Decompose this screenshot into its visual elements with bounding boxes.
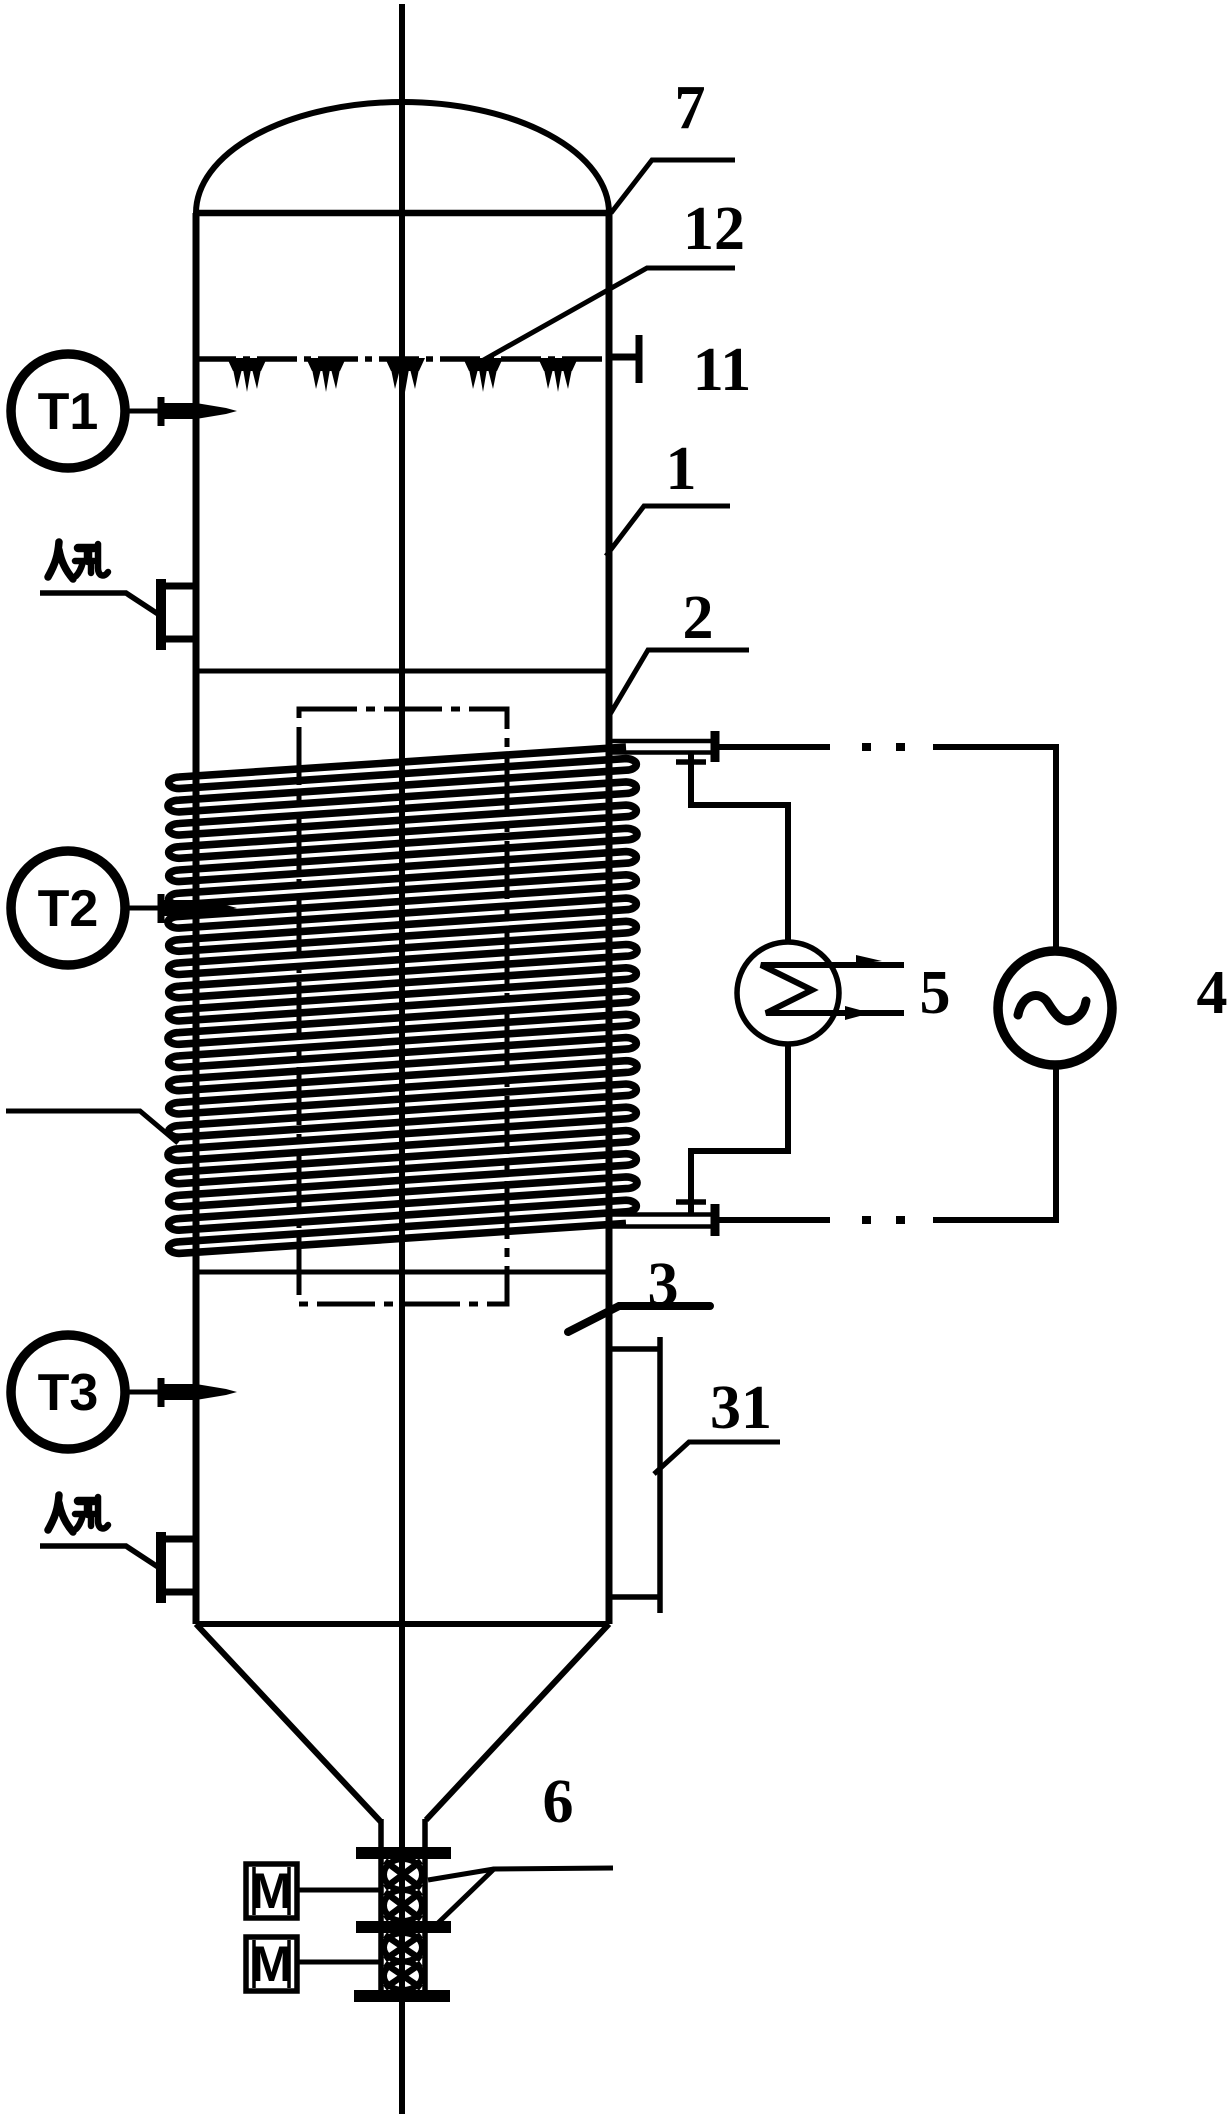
lower branch pipe from heat exchanger: [676, 1045, 788, 1213]
external tube 31 on right wall: [609, 1337, 661, 1613]
label 2 leader: [609, 650, 749, 716]
svg-text:5: 5: [920, 959, 951, 1027]
centerline of vessel: [399, 4, 405, 2114]
svg-text:T1: T1: [38, 383, 99, 441]
svg-text:2: 2: [683, 584, 714, 652]
manhole (renkong) lower: [40, 1495, 196, 1603]
vessel left wall: [193, 213, 200, 1624]
svg-text:6: 6: [543, 1768, 574, 1836]
unlabeled leader to coil (left): [6, 1111, 178, 1143]
temperature sensor T3: [11, 1335, 237, 1449]
coil upper lead-out pipe with flange: [609, 731, 715, 762]
vessel bottom tangent line: [196, 1621, 609, 1627]
spray nozzle 5: [538, 358, 578, 392]
lower conductor wire to AC source (dash-dot-dot): [719, 1066, 1056, 1224]
svg-text:T2: T2: [38, 880, 99, 938]
manhole (renkong) upper: [40, 542, 196, 650]
label 11: [693, 336, 752, 404]
spray nozzle 4: [463, 358, 503, 392]
svg-text:31: 31: [710, 1374, 772, 1442]
coil lower lead-out pipe with flange: [609, 1204, 715, 1236]
AC power source 4 (circle with sine): [998, 951, 1112, 1065]
heat exchanger 5 (circle with zigzag): [737, 942, 904, 1044]
star feeder valve upper 6: [381, 1859, 425, 1921]
inner bed boundary (dash-dot rectangle): [299, 709, 507, 1304]
section divider line (zone 1 / zone 2): [196, 669, 609, 674]
svg-text:12: 12: [683, 195, 745, 263]
svg-text:T3: T3: [38, 1364, 99, 1422]
flange 2 (between valves): [356, 1921, 451, 1933]
flange 1 (top of valve train): [356, 1847, 451, 1859]
label 7: [675, 74, 706, 142]
label 1: [666, 435, 697, 503]
spray nozzle 2: [306, 358, 346, 392]
motor M lower: [246, 1936, 297, 1992]
spray header dash-dot line 12: [196, 356, 609, 362]
conical bottom left slope: [196, 1624, 381, 1822]
svg-text:1: 1: [666, 435, 697, 503]
svg-text:11: 11: [693, 336, 752, 404]
vessel right wall: [606, 213, 613, 1624]
temperature sensor T1: [11, 354, 237, 468]
motor M upper: [246, 1863, 297, 1919]
upper branch pipe to heat exchanger: [676, 752, 788, 941]
motor M lower drive shaft: [297, 1960, 381, 1965]
temperature sensor T2: [11, 851, 237, 965]
svg-text:7: 7: [675, 74, 706, 142]
vessel top tangent line: [196, 210, 609, 217]
label 12: [683, 195, 745, 263]
label 4: [1197, 959, 1228, 1027]
label 3 leader: [568, 1306, 710, 1332]
svg-text:M: M: [251, 1863, 293, 1919]
label 5: [920, 959, 951, 1027]
label 12 leader: [480, 268, 735, 362]
section divider line (zone 2 / zone 3): [196, 1270, 609, 1275]
induction heating coil 2 (helical winding): [168, 747, 637, 1253]
spray nozzle 3: [385, 358, 425, 392]
star feeder valve lower 6: [381, 1933, 425, 1990]
svg-text:M: M: [251, 1936, 293, 1992]
discharge neck: [381, 1819, 425, 1848]
label 2: [683, 584, 714, 652]
label 6: [543, 1768, 574, 1836]
label 1 leader: [606, 506, 730, 556]
label 31 leader: [654, 1442, 780, 1474]
spray nozzle 1: [227, 358, 267, 392]
flange 3 (bottom of valve train): [354, 1990, 450, 2002]
label 7 leader: [611, 160, 735, 213]
conical bottom right slope: [426, 1624, 609, 1820]
label 6 leader: [428, 1868, 613, 1923]
label 31: [710, 1374, 772, 1442]
label 3: [648, 1251, 679, 1319]
vessel top head (dome) 7: [196, 102, 609, 213]
vapour outlet nozzle 11: [609, 335, 639, 383]
motor M upper drive shaft: [297, 1888, 381, 1893]
upper conductor wire to AC source (dash-dot-dot): [719, 743, 1056, 951]
svg-text:4: 4: [1197, 959, 1228, 1027]
svg-text:3: 3: [648, 1251, 679, 1319]
